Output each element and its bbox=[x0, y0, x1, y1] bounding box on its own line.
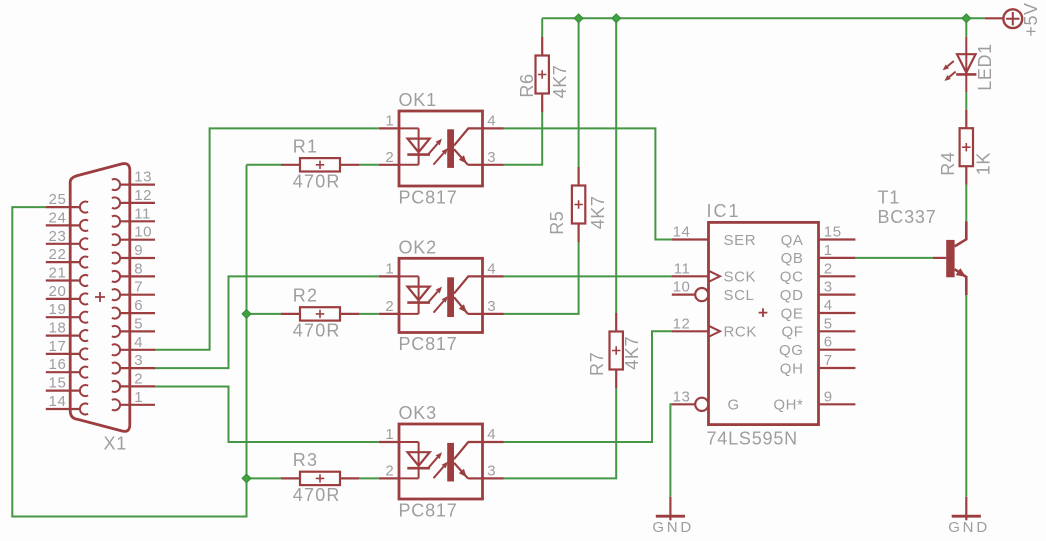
X1 pin 17 bbox=[46, 348, 88, 359]
svg-text:BC337: BC337 bbox=[878, 207, 937, 227]
X1 pin 3 bbox=[112, 363, 155, 374]
svg-text:6: 6 bbox=[824, 334, 833, 351]
svg-text:R2: R2 bbox=[293, 286, 318, 306]
wire OK2 pin4 to IC1 SCK bbox=[504, 275, 673, 277]
R4 body and pins bbox=[960, 110, 973, 185]
svg-text:QD: QD bbox=[780, 287, 804, 304]
optocoupler OK3 PC817 bbox=[379, 403, 504, 521]
wire OK3 pin4 to IC1 RCK bbox=[504, 331, 673, 442]
OK2 pin 3 lead bbox=[483, 313, 504, 315]
LED1 bbox=[943, 37, 996, 92]
svg-text:3: 3 bbox=[487, 149, 496, 166]
svg-text:14: 14 bbox=[673, 224, 691, 241]
svg-text:13: 13 bbox=[134, 169, 152, 186]
svg-text:QG: QG bbox=[779, 342, 804, 359]
X1 pin 15 bbox=[46, 385, 88, 396]
svg-text:1K: 1K bbox=[974, 152, 994, 175]
svg-text:5: 5 bbox=[824, 315, 833, 332]
svg-text:2: 2 bbox=[385, 149, 394, 166]
svg-text:GND: GND bbox=[652, 519, 694, 536]
svg-text:QA: QA bbox=[781, 232, 804, 249]
X1 pin 21 bbox=[46, 275, 88, 286]
ground GND symbol bbox=[948, 497, 990, 536]
svg-text:4K7: 4K7 bbox=[622, 336, 642, 370]
svg-text:4: 4 bbox=[824, 297, 833, 314]
X1 pin 10 bbox=[112, 234, 155, 245]
OK1 pin 2 lead bbox=[379, 164, 399, 166]
svg-text:OK3: OK3 bbox=[399, 403, 437, 423]
resistor R1 470R bbox=[281, 137, 359, 192]
OK3 box outline bbox=[399, 424, 483, 499]
R6 body and pins bbox=[536, 37, 549, 112]
OK3 phototransistor bbox=[447, 442, 482, 482]
T1 collector lead bbox=[955, 222, 967, 247]
svg-text:12: 12 bbox=[673, 315, 691, 332]
wire R4 to T1 collector bbox=[965, 185, 967, 222]
OK3 pin 1 lead bbox=[379, 441, 399, 443]
wire R1 to OK1 pin2 bbox=[359, 164, 379, 166]
IC1 origin cross bbox=[759, 308, 768, 317]
svg-text:24: 24 bbox=[49, 209, 67, 226]
wire X1 pin4 to OK1 pin1 bbox=[154, 128, 379, 349]
svg-text:SER: SER bbox=[724, 232, 757, 249]
svg-text:3: 3 bbox=[134, 352, 143, 369]
X1 pin 16 bbox=[46, 367, 88, 378]
wire rail to LED1 bbox=[965, 18, 967, 37]
svg-text:PC817: PC817 bbox=[399, 188, 458, 208]
svg-text:LED1: LED1 bbox=[975, 43, 995, 90]
IC1 pin 11 SCK bbox=[672, 271, 720, 282]
svg-text:3: 3 bbox=[487, 298, 496, 315]
svg-text:10: 10 bbox=[673, 279, 691, 296]
svg-text:IC1: IC1 bbox=[707, 201, 741, 221]
svg-text:1: 1 bbox=[824, 242, 833, 259]
T1 base lead bbox=[933, 257, 946, 259]
svg-text:3: 3 bbox=[487, 463, 496, 480]
resistor R2 470R bbox=[281, 286, 359, 341]
wire bus to R1 bbox=[247, 164, 282, 166]
svg-text:16: 16 bbox=[49, 356, 67, 373]
svg-text:7: 7 bbox=[134, 279, 143, 296]
wire X1 pin3 to OK2 pin1 bbox=[154, 276, 379, 368]
OK1 pin 1 lead bbox=[379, 127, 399, 129]
svg-text:2: 2 bbox=[134, 370, 143, 387]
X1 pin 18 bbox=[46, 330, 88, 341]
svg-text:X1: X1 bbox=[104, 434, 128, 454]
svg-text:4: 4 bbox=[134, 334, 143, 351]
svg-text:QF: QF bbox=[781, 324, 803, 341]
junction at (246.5,478.4) bbox=[242, 474, 251, 483]
wire LED1 to R4 bbox=[965, 92, 967, 109]
IC1 pin 14 SER bbox=[672, 238, 709, 240]
wire bus to R3 bbox=[247, 477, 282, 479]
svg-text:R5: R5 bbox=[547, 211, 567, 235]
wire OK2 pin3 to R5 bottom bbox=[504, 242, 579, 314]
OK1 pin 3 lead bbox=[483, 164, 504, 166]
X1 pin 4 bbox=[112, 344, 155, 355]
R2 body and pins bbox=[281, 307, 359, 320]
svg-text:QB: QB bbox=[781, 250, 804, 267]
svg-text:14: 14 bbox=[49, 393, 67, 410]
X1 pin 23 bbox=[46, 238, 88, 249]
wire bus to R2 bbox=[247, 313, 282, 315]
svg-text:G: G bbox=[728, 397, 740, 414]
GND pin and bar bbox=[952, 497, 981, 520]
svg-text:470R: 470R bbox=[293, 171, 341, 191]
X1 body outline bbox=[70, 164, 130, 432]
svg-text:74LS595N: 74LS595N bbox=[707, 428, 798, 448]
resistor R7 4K7 bbox=[587, 313, 642, 388]
LED1 diode symbol bbox=[956, 37, 976, 92]
wire R6 top to rail bbox=[541, 18, 543, 37]
IC1 pin 1 QB bbox=[819, 257, 856, 259]
wire common bus vertical bbox=[246, 165, 248, 479]
GND pin and bar bbox=[656, 497, 685, 520]
T1 emitter lead with arrow bbox=[955, 268, 967, 295]
OK2 internal LED bbox=[399, 276, 430, 314]
svg-text:3: 3 bbox=[824, 279, 833, 296]
OK3 light arrows bbox=[428, 452, 449, 478]
OK3 pin 2 lead bbox=[379, 477, 399, 479]
svg-text:R6: R6 bbox=[517, 73, 537, 97]
svg-text:19: 19 bbox=[49, 301, 67, 318]
svg-text:15: 15 bbox=[824, 224, 842, 241]
X1 pin 12 bbox=[112, 197, 155, 208]
svg-text:SCL: SCL bbox=[724, 287, 755, 304]
resistor R4 1K bbox=[938, 110, 994, 185]
LED1 light arrows bbox=[943, 61, 956, 81]
svg-text:17: 17 bbox=[49, 338, 67, 355]
R7 body and pins bbox=[610, 313, 623, 388]
OK2 box outline bbox=[399, 258, 483, 332]
svg-text:PC817: PC817 bbox=[399, 334, 458, 354]
IC1 pin 4 QE bbox=[819, 312, 856, 314]
svg-text:OK1: OK1 bbox=[399, 90, 437, 110]
junction at (616.2,18.3) bbox=[612, 14, 621, 23]
OK3 pin 4 lead bbox=[483, 441, 504, 443]
wire X1 pin2 to OK3 pin1 bbox=[154, 387, 379, 443]
X1 pin 8 bbox=[112, 271, 155, 282]
svg-text:470R: 470R bbox=[293, 321, 341, 341]
svg-text:T1: T1 bbox=[878, 188, 901, 208]
svg-text:12: 12 bbox=[134, 187, 152, 204]
svg-text:9: 9 bbox=[824, 388, 833, 405]
R3 body and pins bbox=[281, 472, 359, 485]
IC1 pin 15 QA bbox=[819, 238, 856, 240]
connector X1 (DB25) bbox=[46, 164, 155, 454]
X1 pin 25 bbox=[46, 202, 88, 213]
svg-text:R4: R4 bbox=[938, 151, 958, 175]
IC1 pin 2 QC bbox=[819, 275, 856, 277]
svg-text:4: 4 bbox=[487, 261, 496, 278]
X1 origin cross bbox=[95, 292, 105, 302]
wire X1 pin25 return loop bbox=[12, 207, 246, 516]
svg-text:23: 23 bbox=[49, 228, 67, 245]
X1 pin 1 bbox=[112, 399, 155, 410]
svg-text:4K7: 4K7 bbox=[588, 195, 608, 229]
+5V supply symbol bbox=[985, 2, 1042, 36]
wire R3 to OK3 pin2 bbox=[359, 477, 379, 479]
svg-text:1: 1 bbox=[385, 113, 394, 130]
IC1 pin 9 QH* bbox=[819, 403, 856, 405]
svg-text:4: 4 bbox=[487, 113, 496, 130]
IC1 pin 12 RCK bbox=[672, 326, 720, 337]
X1 pin 14 bbox=[46, 404, 88, 415]
X1 pin 2 bbox=[112, 381, 155, 392]
X1 pin 13 bbox=[112, 179, 155, 190]
svg-text:9: 9 bbox=[134, 242, 143, 259]
optocoupler OK1 PC817 bbox=[379, 90, 504, 208]
IC1 pin 3 QD bbox=[819, 294, 856, 296]
X1 pin 19 bbox=[46, 312, 88, 323]
wire OK1 pin3 to R6 bottom bbox=[504, 112, 543, 165]
svg-text:21: 21 bbox=[49, 265, 67, 282]
R5 body and pins bbox=[572, 167, 585, 242]
X1 pin 6 bbox=[112, 308, 155, 319]
svg-text:2: 2 bbox=[385, 463, 394, 480]
X1 pin 11 bbox=[112, 216, 155, 227]
OK1 pin 4 lead bbox=[483, 127, 504, 129]
IC1 pin 13 G bbox=[672, 398, 709, 411]
svg-text:6: 6 bbox=[134, 297, 143, 314]
IC1 pin 6 QG bbox=[819, 349, 856, 351]
wire R7 top to rail bbox=[615, 18, 617, 313]
IC1 pin 10 SCL bbox=[672, 288, 709, 301]
T1 base bar bbox=[946, 240, 954, 277]
svg-text:QC: QC bbox=[780, 269, 804, 286]
svg-text:OK2: OK2 bbox=[399, 237, 437, 257]
svg-text:18: 18 bbox=[49, 320, 67, 337]
junction at (578.6,18.3) bbox=[574, 14, 583, 23]
svg-text:11: 11 bbox=[674, 260, 691, 277]
X1 pin 7 bbox=[112, 289, 155, 300]
IC1 box outline bbox=[709, 222, 819, 424]
resistor R5 4K7 bbox=[547, 167, 608, 242]
IC1 pin 5 QF bbox=[819, 330, 856, 332]
resistor R6 4K7 bbox=[517, 37, 570, 112]
OK2 pin 4 lead bbox=[483, 275, 504, 277]
OK2 light arrows bbox=[428, 287, 449, 313]
X1 pin 9 bbox=[112, 253, 155, 264]
svg-text:22: 22 bbox=[49, 246, 67, 263]
svg-text:2: 2 bbox=[385, 298, 394, 315]
resistor R3 470R bbox=[281, 450, 359, 505]
svg-text:1: 1 bbox=[385, 426, 394, 443]
wire T1 emitter to GND bbox=[965, 295, 967, 497]
wire IC1 G to GND bbox=[670, 404, 672, 497]
svg-text:5: 5 bbox=[134, 315, 143, 332]
svg-text:+5V: +5V bbox=[1021, 2, 1041, 36]
svg-text:SCK: SCK bbox=[724, 269, 757, 286]
svg-text:20: 20 bbox=[49, 283, 67, 300]
svg-text:25: 25 bbox=[49, 191, 67, 208]
OK2 pin 1 lead bbox=[379, 275, 399, 277]
svg-text:R3: R3 bbox=[293, 450, 318, 470]
svg-text:QH*: QH* bbox=[773, 397, 803, 414]
svg-text:R7: R7 bbox=[587, 352, 607, 376]
wire +5V rail bbox=[542, 17, 985, 19]
OK1 phototransistor bbox=[447, 128, 482, 168]
OK3 pin 3 lead bbox=[483, 477, 504, 479]
wire IC1 QB to T1 base bbox=[855, 257, 933, 259]
svg-text:4K7: 4K7 bbox=[550, 65, 570, 99]
X1 pin 24 bbox=[46, 220, 88, 231]
svg-text:10: 10 bbox=[134, 224, 152, 241]
+5V pin and circle bbox=[985, 9, 1022, 28]
svg-text:11: 11 bbox=[134, 205, 151, 222]
svg-text:1: 1 bbox=[385, 261, 394, 278]
junction at (246.5,313.9) bbox=[242, 310, 251, 319]
junction at (966.3,18.3) bbox=[962, 14, 971, 23]
svg-text:13: 13 bbox=[673, 388, 691, 405]
OK1 box outline bbox=[399, 111, 483, 186]
X1 pin 20 bbox=[46, 293, 88, 304]
OK1 light arrows bbox=[428, 139, 449, 165]
wire OK1 pin4 to IC1 SER bbox=[504, 128, 673, 239]
OK3 internal LED bbox=[399, 442, 430, 478]
svg-text:QH: QH bbox=[780, 360, 804, 377]
X1 pin 5 bbox=[112, 326, 155, 337]
svg-text:QE: QE bbox=[781, 305, 804, 322]
svg-text:7: 7 bbox=[824, 352, 833, 369]
svg-text:15: 15 bbox=[49, 375, 67, 392]
transistor T1 BC337 (NPN) bbox=[878, 188, 967, 296]
svg-text:4: 4 bbox=[487, 426, 496, 443]
OK1 internal LED bbox=[399, 128, 430, 164]
wire OK3 pin3 to R7 bottom bbox=[504, 388, 617, 479]
svg-text:RCK: RCK bbox=[724, 324, 757, 341]
wire R2 to OK2 pin2 bbox=[359, 313, 379, 315]
svg-text:PC817: PC817 bbox=[399, 501, 458, 521]
OK2 pin 2 lead bbox=[379, 313, 399, 315]
svg-text:GND: GND bbox=[948, 519, 990, 536]
IC1 pin 7 QH bbox=[819, 367, 856, 369]
ground GND symbol bbox=[652, 497, 694, 536]
R1 body and pins bbox=[281, 158, 359, 171]
svg-text:1: 1 bbox=[134, 389, 143, 406]
shift register IC1 74LS595N bbox=[672, 201, 856, 448]
svg-text:470R: 470R bbox=[293, 485, 341, 505]
svg-text:R1: R1 bbox=[293, 137, 318, 157]
optocoupler OK2 PC817 bbox=[379, 237, 504, 354]
svg-text:8: 8 bbox=[134, 260, 143, 277]
wire R5 top to rail bbox=[578, 18, 580, 167]
svg-text:2: 2 bbox=[824, 260, 833, 277]
OK2 phototransistor bbox=[447, 276, 482, 317]
X1 pin 22 bbox=[46, 257, 88, 268]
